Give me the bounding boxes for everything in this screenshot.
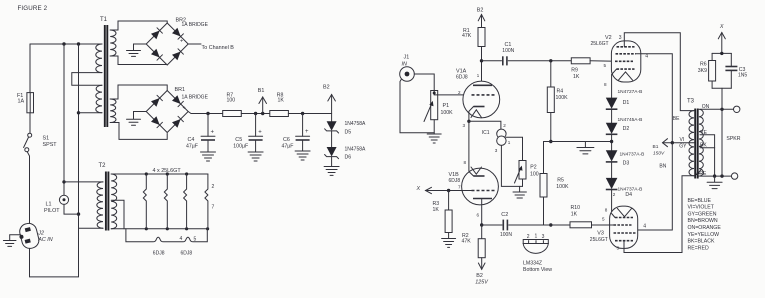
svg-text:1K: 1K	[433, 207, 440, 213]
capacitor C4	[201, 114, 215, 152]
node junction zobel top	[720, 52, 723, 55]
node junction cathodes	[467, 120, 470, 123]
capacitor C2	[503, 220, 507, 231]
heater 25L6GT no2	[164, 174, 167, 229]
svg-text:C2: C2	[501, 212, 508, 218]
resistor R2	[478, 239, 485, 258]
diode D2	[606, 123, 618, 151]
svg-text:6DJ8: 6DJ8	[181, 251, 193, 257]
wire V2 cathode lead	[612, 69, 617, 98]
svg-text:6: 6	[477, 213, 480, 218]
node junction ground rail left	[549, 140, 552, 143]
heater 25L6GT no4	[205, 174, 208, 229]
node junction top bus right	[77, 42, 80, 45]
svg-text:1N4727A-B: 1N4727A-B	[618, 89, 643, 95]
resistor R10	[570, 222, 592, 228]
svg-text:6DJ8: 6DJ8	[153, 251, 165, 257]
svg-text:150V: 150V	[653, 150, 665, 156]
wire J2 ground lead	[10, 235, 21, 240]
svg-text:6DJ8: 6DJ8	[449, 178, 461, 184]
wire R3 bottom	[448, 233, 450, 239]
wire BR2 ground lead	[134, 44, 147, 50]
svg-text:100N: 100N	[500, 232, 512, 238]
potentiometer P2	[515, 161, 527, 184]
wire T2 primary bottom lead	[79, 227, 104, 229]
wire C1 to R9 rail	[508, 60, 571, 62]
diode D1	[606, 98, 618, 123]
svg-text:5: 5	[194, 237, 197, 243]
wire V3 cathode lead	[612, 214, 615, 218]
svg-text:1A BRIDGE: 1A BRIDGE	[182, 95, 209, 101]
wire J1 to P1	[414, 74, 434, 91]
svg-text:J1: J1	[404, 55, 410, 61]
svg-text:D5: D5	[345, 129, 352, 135]
node X arrow top right	[718, 33, 725, 54]
ground C6	[295, 151, 310, 160]
node junction T2 primary top	[62, 180, 65, 183]
svg-text:7: 7	[212, 205, 215, 211]
ground C4	[201, 152, 216, 161]
svg-text:D4: D4	[625, 192, 632, 198]
svg-text:100K: 100K	[441, 110, 454, 116]
svg-text:IN: IN	[402, 61, 407, 67]
ground speaker	[707, 176, 722, 189]
transformer T3	[689, 109, 703, 179]
svg-text:B2: B2	[323, 85, 330, 91]
svg-text:2: 2	[613, 192, 616, 197]
wire T2 primary top lead	[64, 181, 103, 183]
wire T1 sec2 to BR1 bottom	[110, 123, 167, 140]
svg-text:PILOT: PILOT	[44, 208, 60, 214]
zener D6	[325, 147, 339, 166]
ground J2	[3, 241, 16, 247]
resistor R9	[571, 58, 590, 64]
wire R3 top	[448, 191, 450, 211]
ground C5	[248, 152, 263, 161]
wire V2 plate to T3	[624, 33, 694, 111]
svg-text:V3: V3	[597, 230, 604, 236]
wire R4 top	[550, 61, 552, 87]
node B2 arrow down	[478, 258, 485, 270]
svg-text:1: 1	[508, 140, 511, 145]
svg-text:8: 8	[464, 160, 467, 165]
transformer T2	[97, 172, 117, 231]
svg-text:4: 4	[180, 236, 183, 242]
svg-text:3K9: 3K9	[698, 68, 707, 74]
svg-text:Bottom View: Bottom View	[523, 267, 552, 273]
node junction lamp bottom	[77, 212, 80, 215]
svg-text:5: 5	[602, 217, 605, 222]
svg-text:B1: B1	[653, 144, 659, 150]
ground D6	[324, 167, 339, 176]
wire T1 primary series link	[72, 73, 102, 86]
svg-text:YE=YELLOW: YE=YELLOW	[688, 232, 720, 238]
svg-text:1N4758A: 1N4758A	[345, 121, 367, 127]
diode D4	[606, 178, 618, 214]
svg-text:125V: 125V	[475, 280, 489, 286]
svg-text:P2: P2	[530, 165, 536, 171]
node junction top bus left	[62, 42, 65, 45]
ground rail symbol	[577, 142, 594, 154]
potentiometer P1	[424, 91, 438, 122]
svg-text:47K: 47K	[462, 33, 472, 39]
svg-text:100µF: 100µF	[233, 143, 248, 149]
wire V1B plate lead	[481, 199, 483, 226]
wire fuse lead	[29, 44, 31, 93]
svg-text:1N4745A-B: 1N4745A-B	[618, 117, 643, 123]
node junction C6	[301, 112, 304, 115]
node junction R3	[447, 189, 450, 192]
svg-text:BE: BE	[673, 116, 680, 122]
resistor R8	[270, 111, 289, 117]
svg-text:3: 3	[617, 245, 620, 250]
svg-text:+: +	[180, 39, 183, 45]
svg-text:SPST: SPST	[43, 142, 58, 148]
svg-text:BE=BLUE: BE=BLUE	[688, 198, 712, 204]
node B2 arrow	[328, 95, 336, 114]
ground BR1	[127, 119, 141, 125]
svg-text:AC IN: AC IN	[37, 237, 52, 243]
svg-text:RE=RED: RE=RED	[688, 245, 709, 251]
svg-text:100K: 100K	[556, 184, 569, 190]
svg-text:FIGURE 2: FIGURE 2	[18, 5, 48, 12]
wire V2 screen to B1 rail	[636, 54, 673, 143]
wire C2 to R10	[509, 224, 570, 226]
resistor R1	[478, 28, 485, 47]
wire lamp feed vertical	[63, 44, 65, 195]
node B1 arrow	[259, 97, 267, 115]
svg-text:B2: B2	[477, 8, 484, 14]
svg-text:5: 5	[604, 63, 607, 68]
wire R5 bottom	[543, 197, 545, 225]
wire T1 sec1 to BR2 bottom	[110, 56, 166, 65]
svg-text:3: 3	[463, 123, 466, 128]
ground P1	[427, 134, 441, 143]
svg-text:J2: J2	[37, 231, 44, 237]
terminal speaker plus	[734, 106, 740, 112]
wire ground rail	[544, 141, 612, 143]
svg-text:T1: T1	[100, 17, 108, 23]
svg-text:R6: R6	[700, 61, 707, 67]
svg-text:47µF: 47µF	[186, 143, 198, 149]
node junction C5	[254, 112, 257, 115]
wire P2 bottom	[522, 179, 524, 186]
svg-text:R10: R10	[571, 205, 581, 211]
pentode V3	[610, 206, 638, 248]
svg-text:6DJ8: 6DJ8	[456, 75, 468, 81]
svg-text:3: 3	[542, 234, 545, 240]
svg-text:T2: T2	[99, 163, 107, 169]
resistor R5	[540, 174, 547, 198]
node junction V1B plate	[480, 223, 483, 226]
svg-text:D1: D1	[623, 100, 630, 106]
bridge BR1	[146, 91, 188, 133]
terminal speaker minus	[731, 173, 737, 179]
svg-text:8: 8	[604, 82, 607, 87]
wire T1 sec1 to BR2 top	[110, 21, 167, 30]
fuse F1	[27, 93, 34, 113]
ground BR2	[127, 51, 141, 57]
label RE with arrow	[696, 170, 707, 177]
node junction ground rail right	[610, 140, 613, 143]
svg-text:BK=BLACK: BK=BLACK	[688, 239, 716, 245]
wire grid V1A	[434, 91, 471, 95]
wire R1 to plate	[481, 47, 483, 86]
svg-text:X: X	[416, 186, 421, 192]
node junctions heater bus	[145, 172, 210, 230]
svg-text:3: 3	[619, 35, 622, 41]
wire R6 bottom lead	[711, 81, 713, 88]
svg-text:SPKR: SPKR	[726, 136, 740, 142]
node junction R5 bottom	[549, 223, 552, 226]
connector J2	[17, 222, 41, 251]
node junction BK RE	[713, 174, 716, 177]
wire B rail	[188, 112, 223, 114]
node X arrow left	[426, 187, 435, 193]
svg-text:1K: 1K	[278, 98, 285, 104]
svg-text:25L6GT: 25L6GT	[590, 237, 608, 243]
zener D5	[325, 114, 339, 148]
wire rail R8 to zener	[288, 113, 331, 115]
svg-text:To Channel B: To Channel B	[202, 45, 235, 51]
wire V3 plate to T3	[624, 176, 694, 253]
wire BK tap	[700, 148, 715, 176]
wire R9 to V2 grid	[590, 60, 616, 63]
svg-text:2: 2	[527, 234, 530, 240]
wire switch to J2	[27, 152, 29, 224]
node junction zobel RE	[720, 174, 723, 177]
svg-text:T3: T3	[687, 99, 695, 105]
wire T1 lower primary bottom lead	[79, 112, 103, 114]
svg-text:VI: VI	[680, 137, 685, 143]
heater 25L6GT no1	[143, 174, 146, 229]
wire R6 top lead	[711, 53, 713, 60]
wire YE tap	[700, 135, 715, 148]
svg-text:BR1: BR1	[175, 87, 186, 93]
wire fuse to switch	[29, 113, 31, 133]
svg-text:2: 2	[458, 90, 461, 95]
svg-text:GY: GY	[679, 144, 687, 150]
svg-text:BK: BK	[700, 143, 707, 149]
wire ON secondary top	[700, 108, 734, 110]
triode V1B	[462, 167, 499, 205]
svg-text:+: +	[258, 130, 262, 136]
node junction R1 C1	[480, 59, 483, 62]
wire IC1 right to P2	[506, 137, 522, 160]
capacitor C1	[503, 56, 507, 65]
capacitor C3	[725, 53, 737, 88]
svg-text:R4: R4	[557, 89, 564, 95]
svg-text:GY=GREEN: GY=GREEN	[688, 211, 717, 217]
wire R10 left	[544, 224, 571, 226]
svg-text:8: 8	[605, 208, 608, 213]
wire X to grid	[435, 190, 472, 192]
svg-text:L1: L1	[46, 202, 52, 208]
svg-text:+: +	[183, 106, 186, 112]
wire P1 bottom	[433, 120, 435, 134]
triode V1A	[463, 81, 500, 121]
svg-text:V2: V2	[605, 35, 612, 41]
svg-text:3: 3	[495, 148, 498, 153]
svg-text:1N4737A-B: 1N4737A-B	[620, 151, 645, 157]
svg-text:2: 2	[212, 184, 215, 190]
transformer T1	[96, 25, 116, 127]
svg-text:D6: D6	[345, 155, 352, 161]
capacitor C6	[296, 114, 310, 151]
svg-text:1: 1	[535, 234, 538, 240]
wire R4 bottom	[550, 113, 552, 142]
resistor R7	[223, 111, 242, 117]
heater 25L6GT no3	[184, 174, 187, 229]
svg-text:C6: C6	[283, 137, 290, 143]
wire J2 return bottom	[30, 228, 79, 277]
wire BR2 output	[188, 43, 201, 45]
svg-text:47K: 47K	[462, 239, 472, 245]
svg-text:1N5: 1N5	[738, 73, 747, 79]
node junction T1 primary bottom	[77, 111, 80, 114]
svg-text:X: X	[719, 24, 724, 30]
svg-text:B2: B2	[476, 273, 483, 279]
resistor R4	[547, 87, 554, 113]
svg-text:LM334Z: LM334Z	[523, 261, 542, 267]
svg-text:+: +	[305, 129, 309, 135]
svg-text:D2: D2	[623, 126, 630, 132]
wire IC1 bottom	[501, 145, 522, 186]
wire zobel bottom bus	[712, 87, 731, 89]
svg-text:2: 2	[503, 123, 506, 128]
current source IC1	[497, 129, 506, 145]
svg-text:25L6GT: 25L6GT	[591, 41, 609, 47]
svg-text:ON: ON	[702, 104, 710, 110]
wire lamp bottom lead	[64, 204, 79, 214]
legend wire colours	[688, 198, 722, 252]
svg-text:1N4758A: 1N4758A	[345, 147, 367, 153]
svg-text:1A BRIDGE: 1A BRIDGE	[182, 22, 209, 28]
svg-text:R9: R9	[571, 68, 578, 74]
node B2 arrow top	[478, 15, 485, 28]
svg-text:YE: YE	[700, 130, 707, 136]
svg-text:100: 100	[227, 98, 236, 104]
wire RE secondary bottom	[700, 175, 731, 177]
svg-text:RE: RE	[699, 171, 707, 177]
switch S1	[24, 133, 32, 152]
node B1 150V arrow	[663, 139, 695, 147]
node junction R4 top	[549, 59, 552, 62]
node junction zobel speaker	[720, 108, 723, 111]
node junction screen rail tap	[671, 141, 674, 144]
jack J1	[400, 67, 415, 82]
svg-text:BN: BN	[659, 164, 666, 170]
wire zobel top bus	[712, 52, 731, 54]
wire R5 top	[543, 142, 545, 174]
lamp L1	[59, 195, 68, 204]
svg-text:4 x 25L6GT: 4 x 25L6GT	[153, 168, 182, 174]
svg-text:S1: S1	[43, 136, 50, 142]
wire BR1 ground lead	[134, 112, 147, 119]
wire C2 left	[482, 224, 502, 226]
node junction C4	[206, 112, 209, 115]
package LM334Z bottom view	[523, 240, 548, 254]
svg-text:100: 100	[530, 171, 539, 177]
wire R10 to V3 grid	[592, 224, 614, 226]
wire J1 sleeve to ground	[400, 79, 434, 133]
wire cathode bus to V1B	[468, 121, 470, 171]
svg-text:1K: 1K	[571, 212, 578, 218]
svg-text:R5: R5	[557, 177, 564, 183]
wire T2 secondary tap	[111, 200, 124, 229]
svg-text:C5: C5	[235, 137, 242, 143]
svg-text:BN=BROWN: BN=BROWN	[688, 218, 718, 224]
resistor R3	[445, 210, 452, 233]
diode D3	[606, 150, 618, 178]
svg-text:VI=VIOLET: VI=VIOLET	[688, 205, 715, 211]
wire heater bus top	[111, 173, 208, 175]
wire rail R7 to R8	[241, 113, 269, 115]
svg-text:D3: D3	[623, 160, 630, 166]
wire heater bus bottom	[111, 228, 208, 230]
svg-text:ON=ORANGE: ON=ORANGE	[688, 225, 722, 231]
svg-text:7: 7	[458, 185, 461, 190]
resistor R6	[709, 61, 716, 82]
ground R3	[442, 239, 456, 248]
wire mains top bus	[30, 43, 102, 45]
svg-text:+: +	[211, 130, 215, 136]
wire neutral vertical	[78, 44, 80, 228]
svg-text:47µF: 47µF	[282, 143, 294, 149]
wire C1 left	[482, 60, 502, 62]
node junction P1 top	[433, 92, 436, 95]
wire T1 sec2 to BR1 top	[110, 85, 167, 99]
wire 6DJ8 heater loop	[126, 229, 207, 242]
svg-text:1A: 1A	[18, 99, 25, 105]
bridge BR2	[146, 23, 188, 65]
svg-text:P1: P1	[443, 103, 450, 109]
svg-text:B1: B1	[258, 88, 265, 94]
wire screen rail to V3	[638, 143, 673, 230]
wire zobel to speaker line	[721, 88, 723, 176]
svg-text:100K: 100K	[556, 95, 569, 101]
wire R2 top	[481, 225, 483, 239]
capacitor C5	[249, 114, 263, 152]
svg-text:C4: C4	[188, 137, 195, 143]
svg-text:4: 4	[643, 224, 646, 230]
pentode V2	[611, 41, 640, 82]
svg-text:IC1: IC1	[482, 130, 490, 136]
svg-text:100N: 100N	[502, 48, 514, 54]
svg-text:1K: 1K	[573, 74, 580, 80]
ground IC1 P2	[513, 186, 526, 198]
wire cathode to IC1	[469, 121, 501, 129]
